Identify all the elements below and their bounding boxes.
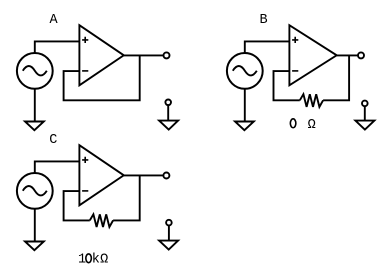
terminal (A, above right ground) bbox=[165, 100, 171, 106]
wire: inverting input to resistor (B) bbox=[274, 71, 300, 100]
wire: source to noninverting input (A) bbox=[35, 41, 80, 53]
wire: op-amp output (A) bbox=[124, 54, 164, 56]
svg-text:A: A bbox=[49, 13, 58, 28]
wire: inverting input to resistor (C) bbox=[64, 191, 90, 220]
op-amp U3 (C) bbox=[79, 145, 123, 205]
op-amp U2 (B) bbox=[289, 25, 336, 85]
pin marker - (A inverting input) bbox=[82, 70, 88, 72]
AC source V1 (A) bbox=[17, 53, 53, 89]
terminal (B, above right ground) bbox=[362, 101, 368, 107]
value label 0 (B) bbox=[290, 119, 296, 128]
output terminal (B) bbox=[358, 52, 364, 58]
value label 10kOhm (C): digit 0 bbox=[86, 254, 92, 263]
svg-text:Ω: Ω bbox=[100, 253, 108, 268]
wire: resistor to output (C) bbox=[113, 175, 140, 220]
wire: source to ground (B) bbox=[244, 89, 246, 122]
ground (B, right) bbox=[355, 121, 374, 130]
wire: source to ground (A) bbox=[34, 89, 36, 122]
output terminal (A) bbox=[164, 52, 170, 58]
wire: terminal to ground (B) bbox=[364, 106, 366, 120]
feedback wire (A): output to inverting input bbox=[64, 55, 140, 100]
svg-text:k: k bbox=[92, 253, 100, 268]
AC source V2 (B) bbox=[227, 53, 263, 89]
wire: op-amp output (B) bbox=[337, 54, 358, 56]
svg-text:1: 1 bbox=[78, 253, 86, 268]
ground (A, below source) bbox=[25, 122, 44, 131]
wire: terminal to ground (C) bbox=[168, 226, 170, 241]
svg-text:B: B bbox=[259, 13, 267, 28]
svg-text:C: C bbox=[49, 133, 57, 148]
pin marker + (B noninverting input) bbox=[292, 37, 298, 43]
ground (B, below source) bbox=[235, 122, 254, 131]
wire: terminal to ground (A) bbox=[167, 105, 169, 120]
pin marker - (C inverting input) bbox=[82, 190, 88, 192]
op-amp U1 (A) bbox=[79, 25, 123, 85]
terminal (C, above right ground) bbox=[166, 220, 172, 226]
resistor R1 (B feedback) bbox=[300, 94, 323, 107]
resistor R2 (C feedback) bbox=[90, 214, 113, 227]
wire: source to noninverting input (B) bbox=[245, 41, 289, 53]
svg-text:Ω: Ω bbox=[308, 118, 316, 133]
ground (C, below source) bbox=[25, 242, 44, 251]
AC source V3 (C) bbox=[17, 173, 53, 209]
pin marker + (A noninverting input) bbox=[82, 37, 88, 43]
wire: source to ground (C) bbox=[34, 209, 36, 242]
ground (C, right) bbox=[159, 241, 178, 250]
wire: source to noninverting input (C) bbox=[35, 161, 80, 173]
pin marker + (C noninverting input) bbox=[82, 157, 88, 163]
wire: resistor to output (B) bbox=[323, 55, 349, 100]
output terminal (C) bbox=[163, 173, 169, 179]
wire: op-amp output (C) bbox=[124, 174, 164, 176]
pin marker - (B inverting input) bbox=[292, 70, 298, 72]
ground (A, right) bbox=[159, 121, 178, 130]
